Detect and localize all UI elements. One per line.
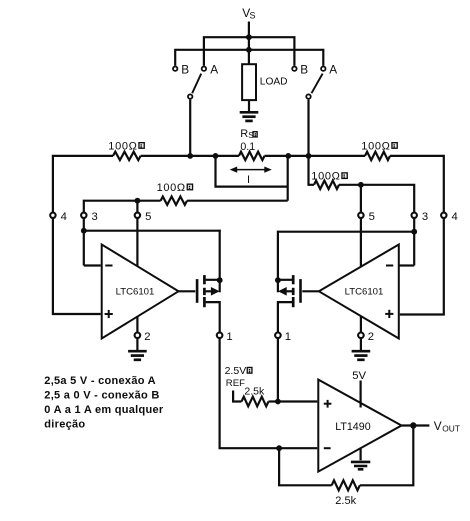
svg-text:100Ω: 100Ω bbox=[311, 171, 340, 183]
svg-text:A: A bbox=[329, 62, 337, 76]
svg-text:100Ω: 100Ω bbox=[108, 140, 137, 152]
svg-text:LTC6101: LTC6101 bbox=[116, 286, 155, 297]
svg-text:LT1490: LT1490 bbox=[335, 421, 371, 433]
svg-text:2,5a 5 V - conexão A: 2,5a 5 V - conexão A bbox=[44, 375, 156, 387]
svg-text:2,5 a 0 V - conexão B: 2,5 a 0 V - conexão B bbox=[44, 389, 159, 401]
svg-text:2.5k: 2.5k bbox=[244, 386, 265, 398]
svg-text:3: 3 bbox=[92, 211, 98, 223]
svg-text:A: A bbox=[210, 62, 218, 76]
svg-text:2: 2 bbox=[368, 331, 374, 343]
svg-text:V: V bbox=[434, 419, 442, 433]
svg-text:LOAD: LOAD bbox=[260, 76, 288, 87]
svg-text:100Ω: 100Ω bbox=[361, 140, 390, 152]
svg-text:5: 5 bbox=[369, 211, 375, 223]
svg-text:2.5V: 2.5V bbox=[225, 365, 247, 377]
svg-text:1: 1 bbox=[226, 331, 232, 343]
svg-text:4: 4 bbox=[61, 211, 67, 223]
svg-text:REF: REF bbox=[226, 378, 245, 389]
svg-text:1: 1 bbox=[285, 331, 291, 343]
svg-text:OUT: OUT bbox=[442, 424, 460, 434]
svg-text:2: 2 bbox=[144, 331, 150, 343]
svg-text:B: B bbox=[181, 62, 189, 76]
svg-text:2.5k: 2.5k bbox=[335, 495, 356, 507]
svg-text:0 A a 1 A em qualquer: 0 A a 1 A em qualquer bbox=[44, 404, 164, 416]
svg-text:direção: direção bbox=[44, 419, 85, 431]
svg-text:0.1: 0.1 bbox=[240, 141, 255, 153]
svg-text:S: S bbox=[250, 11, 256, 21]
svg-text:R: R bbox=[240, 128, 248, 140]
svg-text:100Ω: 100Ω bbox=[157, 182, 186, 194]
svg-text:4: 4 bbox=[452, 211, 458, 223]
svg-text:LTC6101: LTC6101 bbox=[345, 286, 384, 297]
svg-text:3: 3 bbox=[422, 211, 428, 223]
svg-text:5: 5 bbox=[145, 211, 151, 223]
svg-text:I: I bbox=[247, 174, 250, 186]
svg-text:5V: 5V bbox=[352, 370, 366, 382]
svg-text:B: B bbox=[300, 62, 308, 76]
